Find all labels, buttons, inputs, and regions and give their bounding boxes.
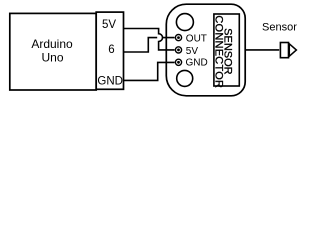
label Arduino Uno	[31, 37, 73, 65]
wire Arduino pin 6 to connector OUT pin (gap under hop)	[124, 38, 175, 52]
svg-text:Uno: Uno	[41, 51, 63, 65]
svg-text:5V: 5V	[186, 46, 199, 57]
connector pin OUT	[175, 35, 181, 41]
wire connector to sensor	[245, 49, 279, 51]
svg-text:GND: GND	[186, 57, 208, 68]
sensor plug tip	[289, 44, 296, 56]
wire Arduino GND to connector GND pin	[124, 62, 175, 80]
svg-text:5V: 5V	[102, 19, 116, 31]
svg-text:Sensor: Sensor	[262, 21, 297, 33]
svg-text:6: 6	[108, 44, 114, 56]
sensor connector label box	[214, 14, 239, 86]
sensor plug body	[280, 43, 288, 58]
svg-text:OUT: OUT	[186, 34, 207, 45]
svg-text:GND: GND	[97, 76, 123, 88]
wire Arduino 5V to connector 5V pin (hop over OUT wire)	[124, 29, 175, 50]
Arduino Uno box	[10, 13, 96, 90]
connector pin GND	[175, 59, 181, 65]
mounting hole top	[176, 14, 193, 31]
label SENSOR CONNECTOR (rotated)	[212, 15, 233, 88]
sensor connector body	[166, 4, 245, 96]
pin header box	[96, 12, 123, 89]
svg-text:Arduino: Arduino	[31, 37, 73, 51]
svg-text:CONNECTOR: CONNECTOR	[212, 15, 224, 88]
mounting hole bottom	[177, 70, 193, 86]
connector pin 5V	[175, 47, 181, 53]
